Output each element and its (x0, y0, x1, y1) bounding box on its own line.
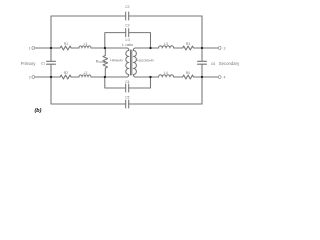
svg-text:RCORE: RCORE (96, 59, 106, 64)
svg-text:L2: L2 (84, 71, 88, 75)
svg-text:L3: L3 (164, 42, 168, 46)
wire node2 down to bottom rail (50, 77, 52, 104)
node junction dot 4 (201, 76, 203, 78)
wire top outer rail left (51, 15, 126, 17)
svg-text:R1: R1 (64, 42, 68, 46)
terminal 2 (32, 76, 35, 79)
svg-text:R4: R4 (186, 71, 190, 75)
resistor R1 (59, 46, 72, 50)
resistor Rcore (103, 48, 108, 77)
resistor R2 (59, 75, 72, 79)
wire right vertical top (node 3 to top rail) (201, 16, 203, 48)
inductor L4 (159, 75, 174, 77)
resistor R3 (182, 46, 195, 50)
svg-text:C5: C5 (125, 96, 129, 100)
wire C4 stub right (129, 77, 151, 88)
wire R3 to terminal 3 (195, 47, 219, 49)
svg-text:C2: C2 (125, 5, 129, 9)
svg-text:L4: L4 (164, 71, 168, 75)
capacitor C2 (126, 12, 129, 20)
svg-text:Primary: Primary (21, 61, 37, 66)
wire L1 to block (91, 47, 127, 49)
wire C3 stub left (105, 33, 126, 48)
node junction dot block bottom-right (149, 76, 151, 78)
wire bottom outer rail left (51, 103, 126, 105)
wire left primary capacitor branch (50, 48, 52, 77)
node junction dot 1 (50, 47, 52, 49)
svg-text:L ratio: L ratio (122, 42, 134, 47)
svg-text:2: 2 (29, 76, 31, 80)
inductor L1 (79, 46, 91, 48)
wire L2 to block (91, 76, 127, 78)
wire C3 stub right (129, 33, 151, 48)
capacitor C4 (126, 84, 129, 92)
terminal 3 (218, 47, 221, 50)
node junction dot block top-left (104, 47, 106, 49)
node junction dot block top-right (149, 47, 151, 49)
wire left vertical top (node 1 to top rail) (50, 16, 52, 48)
node junction dot 2 (50, 76, 52, 78)
transformer primary winding Lprimary (126, 48, 129, 77)
wire terminal2 to junction (35, 76, 59, 78)
wire L4 to R4 (174, 76, 182, 78)
svg-text:C6: C6 (211, 62, 215, 66)
capacitor C6 (198, 61, 207, 64)
wire top outer rail right (129, 15, 202, 17)
wire secondary top to L3 (135, 47, 158, 49)
svg-text:LSECONDARY: LSECONDARY (137, 58, 155, 63)
transformer secondary winding Lsecondary (133, 48, 136, 77)
svg-text:C3: C3 (125, 24, 129, 28)
svg-text:C1: C1 (41, 61, 45, 65)
wire C4 stub left (105, 77, 126, 88)
wire terminal1 to junction (35, 47, 59, 49)
wire bottom outer rail right (129, 103, 202, 105)
node junction dot block bottom-left (104, 76, 106, 78)
transformer core (131, 50, 132, 75)
svg-text:3: 3 (224, 47, 226, 51)
svg-text:R3: R3 (186, 42, 190, 46)
wire L3 to R3 (174, 47, 182, 49)
capacitor C5 (126, 100, 129, 108)
svg-text:Secondary: Secondary (219, 61, 240, 66)
inductor L3 (159, 46, 174, 48)
svg-text:4: 4 (224, 76, 226, 80)
wire right secondary capacitor branch (201, 48, 203, 77)
svg-text:L1: L1 (84, 42, 88, 46)
terminal 4 (218, 76, 221, 79)
terminal 1 (32, 47, 35, 50)
capacitor C1 (47, 61, 56, 64)
wire R4 to terminal 4 (195, 76, 219, 78)
wire R2 to L2 (72, 76, 79, 78)
wire node4 down to bottom rail (201, 77, 203, 104)
wire secondary bottom to L4 (135, 76, 158, 78)
resistor R4 (182, 75, 195, 79)
inductor L2 (79, 75, 91, 77)
svg-text:(b): (b) (35, 108, 42, 114)
svg-text:1: 1 (29, 47, 31, 51)
wire R1 to L1 (72, 47, 79, 49)
svg-text:LPRIMARY: LPRIMARY (110, 58, 124, 63)
svg-text:C4: C4 (125, 80, 129, 84)
svg-text:R2: R2 (64, 71, 68, 75)
node junction dot 3 (201, 47, 203, 49)
capacitor C3 (126, 29, 129, 37)
